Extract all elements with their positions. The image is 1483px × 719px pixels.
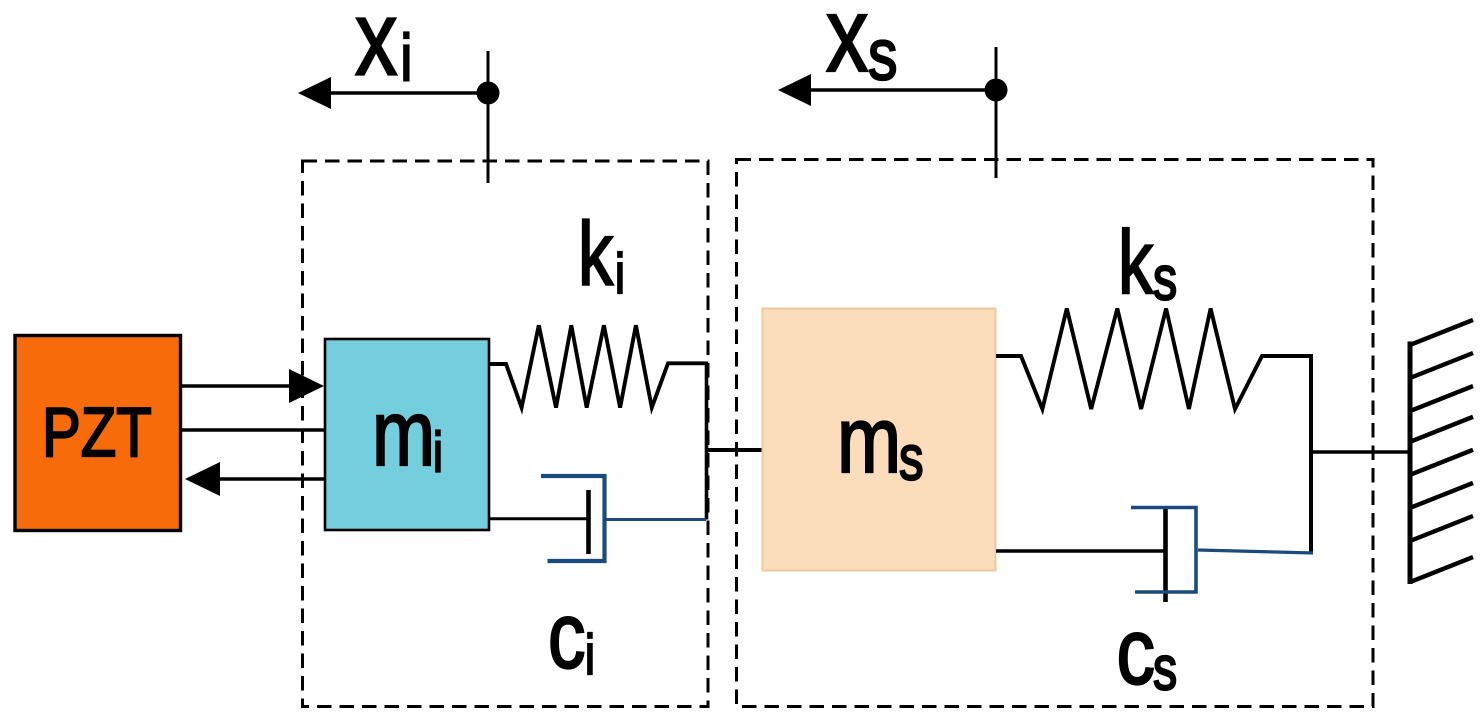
- node xs dot: [985, 79, 1008, 102]
- damper ci output wire (navy): [607, 518, 707, 521]
- damper cs cylinder: [1131, 508, 1196, 593]
- ground wall line: [1408, 342, 1413, 585]
- damper ci piston plate: [586, 490, 591, 554]
- dashed subsystem box 1 (intermediate mass): [303, 161, 709, 707]
- damper cs piston plate: [1163, 509, 1168, 602]
- mass mi box: [325, 339, 489, 530]
- svg-text:c: c: [1117, 599, 1156, 704]
- svg-text:k: k: [578, 205, 614, 305]
- svg-text:i: i: [585, 623, 595, 687]
- node xs reference line (vertical tick): [995, 47, 998, 178]
- spring ki: [489, 325, 705, 407]
- damper cs output wire (navy): [1198, 550, 1313, 553]
- svg-text:i: i: [433, 420, 443, 484]
- damper ci cylinder: [541, 476, 605, 561]
- node xi reference line (vertical tick): [487, 51, 490, 183]
- svg-text:s: s: [868, 14, 898, 95]
- damper ci piston rod (wire): [489, 517, 587, 520]
- svg-text:s: s: [899, 423, 924, 493]
- svg-text:k: k: [1118, 213, 1154, 313]
- wire PZT to mi (middle): [182, 428, 325, 431]
- arrow mi to PZT (bottom): [216, 477, 325, 480]
- node xi dot: [477, 82, 500, 105]
- svg-text:s: s: [1153, 634, 1177, 703]
- svg-text:i: i: [401, 21, 413, 95]
- xs arrow (wire): [807, 88, 996, 91]
- svg-text:i: i: [615, 242, 625, 306]
- rail right of subsystem 1 (wire): [705, 362, 709, 520]
- svg-text:s: s: [1153, 244, 1177, 313]
- xi arrow (wire): [327, 91, 488, 94]
- spring ks: [996, 309, 1311, 410]
- wire connecting subsystem 1 to ms: [705, 448, 762, 452]
- mass ms box: [763, 309, 996, 571]
- damper cs piston rod (wire): [996, 549, 1164, 552]
- rail right of subsystem 2 (wire): [1309, 354, 1313, 553]
- PZT actuator box: [15, 336, 181, 531]
- svg-text:c: c: [548, 583, 586, 688]
- ground wall hatching: [1410, 320, 1473, 582]
- svg-text:PZT: PZT: [42, 393, 152, 471]
- svg-text:m: m: [837, 388, 901, 493]
- svg-text:x: x: [826, 0, 868, 94]
- svg-text:m: m: [372, 381, 435, 485]
- arrow PZT to mi (top): [182, 384, 292, 387]
- dashed subsystem box 2 (sample mass): [737, 160, 1374, 707]
- wire rail to wall: [1311, 450, 1410, 453]
- svg-text:x: x: [355, 0, 397, 98]
